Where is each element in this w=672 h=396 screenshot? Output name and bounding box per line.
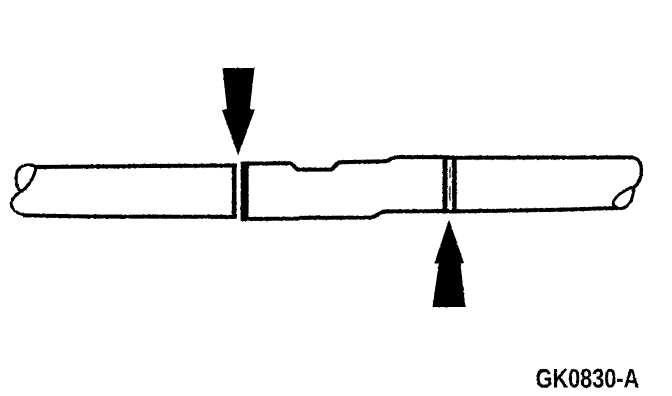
middle tube bottom edge bbox=[242, 211, 449, 219]
down arrow pointing at left band bbox=[222, 68, 255, 156]
up arrow pointing at right band bbox=[433, 220, 466, 308]
right tube bottom edge bbox=[449, 208, 618, 212]
right tube top edge bbox=[444, 155, 633, 159]
left tube top edge bbox=[34, 166, 237, 168]
left end crimp loop bbox=[16, 165, 36, 192]
left end lower curve bbox=[11, 192, 25, 215]
left tube bottom edge bbox=[23, 215, 237, 217]
right band slit speckle bbox=[449, 167, 451, 201]
left band line 2 bbox=[241, 162, 249, 221]
right end corner curve bbox=[632, 157, 641, 187]
svg-text:GK0830-A: GK0830-A bbox=[536, 364, 640, 394]
right band line 1 bbox=[443, 159, 448, 213]
right end crimp loop bbox=[613, 187, 633, 209]
left band line 1 bbox=[232, 164, 237, 219]
middle tube top edge bbox=[242, 157, 450, 170]
right band line 2 bbox=[452, 160, 457, 214]
